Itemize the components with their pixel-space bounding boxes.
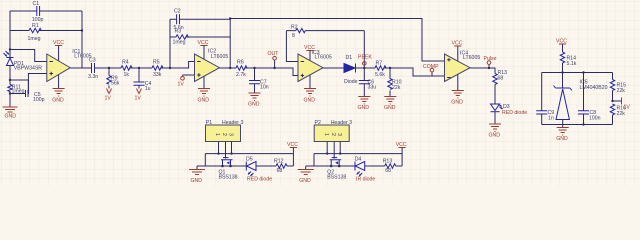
photodiode PD1 (4, 51, 43, 72)
wire main to IC4 inverting (jog) (390, 68, 445, 76)
wire IC1 output (70, 67, 109, 69)
svg-text:RED diode: RED diode (247, 176, 272, 182)
svg-text:GND: GND (52, 98, 64, 104)
wire P2 pins (327, 142, 340, 159)
wire IC2 output (220, 67, 237, 69)
svg-text:D4: D4 (355, 156, 362, 162)
node junction R10 tap (389, 67, 391, 69)
wire main into IC2 inverting (jog) (170, 62, 195, 69)
diode D1 (344, 55, 364, 85)
svg-text:IR diode: IR diode (356, 176, 375, 182)
svg-text:22k: 22k (617, 111, 626, 117)
svg-text:LT6005: LT6005 (211, 54, 228, 60)
node junction R9 tap (108, 67, 110, 69)
svg-text:2: 2 (330, 133, 336, 136)
svg-text:R1: R1 (32, 23, 39, 29)
svg-text:VCC: VCC (53, 40, 64, 46)
svg-text:LT6005: LT6005 (463, 55, 480, 61)
svg-text:R6: R6 (237, 59, 244, 65)
power VCC IC1 (53, 40, 64, 46)
ground GND IC4 (451, 91, 464, 106)
net label OUT (268, 51, 280, 68)
LED D5 (246, 156, 272, 182)
ground GND under R10 (384, 97, 396, 112)
wire R2 feedback left leg (286, 31, 298, 62)
svg-text:33u: 33u (368, 84, 377, 90)
node junctions P1 pins (217, 152, 219, 154)
transistor Q2 (327, 158, 346, 181)
svg-text:R13: R13 (383, 159, 393, 165)
svg-text:1u: 1u (145, 86, 151, 92)
svg-text:BSS138: BSS138 (327, 175, 346, 181)
power VCC right block (556, 39, 567, 53)
svg-text:Pulse: Pulse (484, 56, 497, 62)
capacitor C2 (170, 9, 230, 32)
svg-text:100n: 100n (589, 116, 601, 122)
svg-text:GND: GND (304, 98, 316, 104)
resistor R9 (107, 68, 120, 89)
svg-text:C2: C2 (174, 9, 181, 15)
svg-text:68: 68 (385, 168, 391, 174)
svg-text:R4: R4 (122, 59, 129, 65)
wire reference top rail (542, 72, 613, 74)
svg-text:VCC: VCC (556, 39, 567, 45)
svg-text:3: 3 (336, 133, 342, 136)
svg-text:8: 8 (292, 33, 295, 39)
svg-text:COMP: COMP (423, 64, 439, 70)
svg-text:GND: GND (198, 98, 210, 104)
svg-text:R3: R3 (175, 28, 182, 34)
svg-text:68: 68 (498, 75, 504, 81)
svg-text:LT6005: LT6005 (315, 55, 332, 61)
node junctions C8 rails (582, 71, 584, 73)
node junction C5 tap (9, 92, 11, 94)
resistor R16 (610, 104, 626, 125)
power VCC IC4 (452, 41, 463, 47)
svg-text:Header 3: Header 3 (222, 120, 243, 126)
svg-text:22k: 22k (617, 88, 626, 94)
resistor R1 (10, 23, 82, 42)
resistor R7 (364, 60, 390, 77)
svg-text:1: 1 (214, 133, 220, 136)
svg-text:GND: GND (5, 114, 17, 120)
ground GND IC1 (52, 89, 64, 104)
ground GND IC2 (198, 89, 211, 104)
wire P2 lower rail (306, 148, 402, 167)
wire P1 bridge (205, 154, 293, 166)
svg-text:GND: GND (384, 105, 396, 111)
node junction long wire tap (229, 17, 231, 19)
LED D4 (355, 156, 376, 182)
resistor R12 (274, 159, 287, 174)
ground GND P2 (298, 166, 314, 184)
svg-text:1: 1 (323, 133, 329, 136)
svg-text:GND: GND (248, 102, 260, 108)
node junction R1/rail (81, 29, 83, 31)
svg-text:VCC: VCC (452, 41, 463, 47)
svg-text:VCC: VCC (198, 40, 209, 46)
wire C7 to OUT node (255, 68, 299, 76)
node junction IC2 out/rail (229, 67, 231, 69)
ground GND IC3 (304, 89, 317, 104)
svg-text:56k: 56k (111, 80, 120, 86)
capacitor C5 (10, 80, 45, 103)
net label PEEK (358, 54, 372, 65)
power 1V port at IC2 plus (178, 75, 185, 88)
svg-text:3.3n: 3.3n (88, 74, 98, 80)
node junction R5/rail (169, 67, 171, 69)
svg-text:RED diode: RED diode (502, 110, 527, 116)
svg-text:R5: R5 (153, 59, 160, 65)
resistor R2 (286, 25, 364, 39)
svg-text:BSS138: BSS138 (219, 175, 238, 181)
svg-text:VCC: VCC (287, 142, 298, 148)
resistor R6 (236, 59, 255, 77)
capacitor C3 (88, 57, 98, 79)
svg-text:GND: GND (451, 100, 463, 106)
svg-text:5.6k: 5.6k (375, 72, 385, 78)
svg-text:C1: C1 (33, 1, 40, 7)
op-amp IC3 (298, 50, 332, 88)
connector P2 Header 3 (314, 120, 352, 142)
svg-text:GND: GND (489, 133, 501, 139)
op-amp IC2 (195, 46, 229, 89)
svg-text:VBPW34SR: VBPW34SR (14, 66, 43, 72)
wire PD node to inverting input (step) (10, 50, 47, 62)
wire non-inverting input network (10, 74, 47, 95)
node junction C7 tap (253, 67, 255, 69)
node junction OUT stub (273, 67, 275, 69)
ground GND reference (556, 125, 569, 143)
svg-text:OUT: OUT (268, 51, 280, 57)
ground GND under C6 (358, 97, 371, 112)
wire IC2 plus input stub (183, 74, 195, 76)
svg-text:10n: 10n (260, 84, 269, 90)
svg-text:1meg: 1meg (173, 40, 186, 46)
svg-text:R2: R2 (291, 25, 298, 31)
svg-text:33k: 33k (153, 72, 162, 78)
node junction R14/rail (561, 71, 563, 73)
capacitor C6 (359, 68, 376, 97)
capacitor C8 (578, 73, 601, 125)
node junction 1V tap (611, 100, 613, 102)
net label Pulse (484, 56, 497, 68)
svg-text:C3: C3 (89, 57, 96, 63)
ground GND under R11 (3, 107, 18, 120)
ground GND under C7 (248, 93, 261, 108)
svg-text:1V: 1V (105, 96, 112, 102)
svg-text:D1: D1 (346, 55, 353, 61)
svg-text:Header 3: Header 3 (331, 120, 352, 126)
capacitor C9 (536, 73, 554, 125)
svg-text:P2: P2 (315, 120, 321, 126)
resistor R5 (139, 59, 170, 77)
resistor R4 (109, 59, 139, 77)
power VCC IC3 (304, 45, 315, 51)
wire stage2 left rail (169, 19, 171, 68)
power VCC P1 (287, 142, 298, 148)
wire P1 lower rail (197, 148, 293, 167)
wire stage2 right rail (229, 19, 231, 69)
capacitor C7 (249, 68, 269, 93)
connector P1 Header 3 (206, 120, 244, 142)
svg-text:GND: GND (299, 178, 311, 184)
resistor R3 (170, 28, 230, 45)
node junction C4 tap (138, 67, 140, 69)
capacitor C4 (134, 68, 152, 92)
wire stage1 left rail (9, 11, 11, 80)
svg-text:VCC: VCC (304, 45, 315, 51)
shunt reference IC5 (554, 73, 608, 125)
svg-text:2: 2 (221, 133, 227, 136)
svg-text:1V: 1V (135, 96, 142, 102)
wire R11 to ground (9, 94, 11, 108)
svg-text:1meg: 1meg (28, 36, 41, 42)
resistor R15 (610, 73, 626, 102)
node junction PD rail branch (9, 48, 11, 50)
ground GND under D3 (489, 124, 502, 139)
wire reference bottom rail (542, 124, 613, 126)
svg-text:PEEK: PEEK (358, 54, 372, 60)
resistor R10 (388, 68, 402, 97)
resistor R14 (560, 52, 576, 73)
resistor R13 (493, 70, 507, 104)
svg-text:Diode: Diode (344, 79, 358, 85)
power 1V right (613, 98, 631, 111)
LED D3 (491, 104, 528, 124)
wire stage1 feedback loop C1 top (10, 10, 82, 12)
wire long comparator reference from IC2 (230, 19, 444, 62)
svg-text:1k: 1k (124, 72, 130, 78)
wire P2 bridge (314, 154, 402, 166)
op-amp IC1 (47, 46, 92, 89)
svg-text:R7: R7 (376, 60, 383, 66)
svg-text:GND: GND (358, 105, 370, 111)
power 1V under C4 (135, 89, 142, 102)
node junction PEEK (363, 67, 365, 69)
power VCC IC2 (198, 40, 209, 46)
node junction Pulse stub (488, 67, 490, 69)
wire stage1 right rail (IC1 out to feedback) (81, 11, 83, 68)
net label COMP (423, 64, 439, 76)
svg-text:100p: 100p (33, 97, 45, 103)
svg-text:2.7k: 2.7k (236, 72, 246, 78)
node junctions P2 pins (326, 152, 328, 154)
svg-text:GND: GND (556, 136, 568, 142)
svg-text:GND: GND (191, 178, 203, 184)
node junction plus input (9, 79, 11, 81)
svg-text:100p: 100p (32, 17, 44, 23)
svg-text:VCC: VCC (396, 142, 407, 148)
svg-text:R12: R12 (274, 159, 284, 165)
wire P1 pins (219, 142, 232, 159)
svg-text:1V: 1V (178, 82, 185, 88)
wire IC3 output to D1 (323, 67, 344, 69)
power VCC P2 (396, 142, 407, 148)
resistor R13b (383, 159, 396, 174)
svg-text:3: 3 (227, 133, 233, 136)
resistor R11 (8, 80, 25, 95)
svg-text:D5: D5 (246, 156, 253, 162)
op-amp IC4 comparator (445, 46, 481, 90)
svg-text:P1: P1 (206, 120, 212, 126)
power 1V under R9 (105, 89, 112, 102)
ground GND P1 (189, 166, 205, 184)
wire R2 feedback right leg to PEEK node (363, 31, 365, 68)
svg-text:22k: 22k (392, 85, 401, 91)
wire IC4 output (470, 68, 495, 74)
svg-text:68: 68 (277, 168, 283, 174)
capacitor C1 (32, 1, 44, 23)
svg-text:5.1k: 5.1k (567, 61, 577, 67)
svg-text:1n: 1n (548, 116, 554, 122)
transistor Q1 (219, 158, 238, 181)
